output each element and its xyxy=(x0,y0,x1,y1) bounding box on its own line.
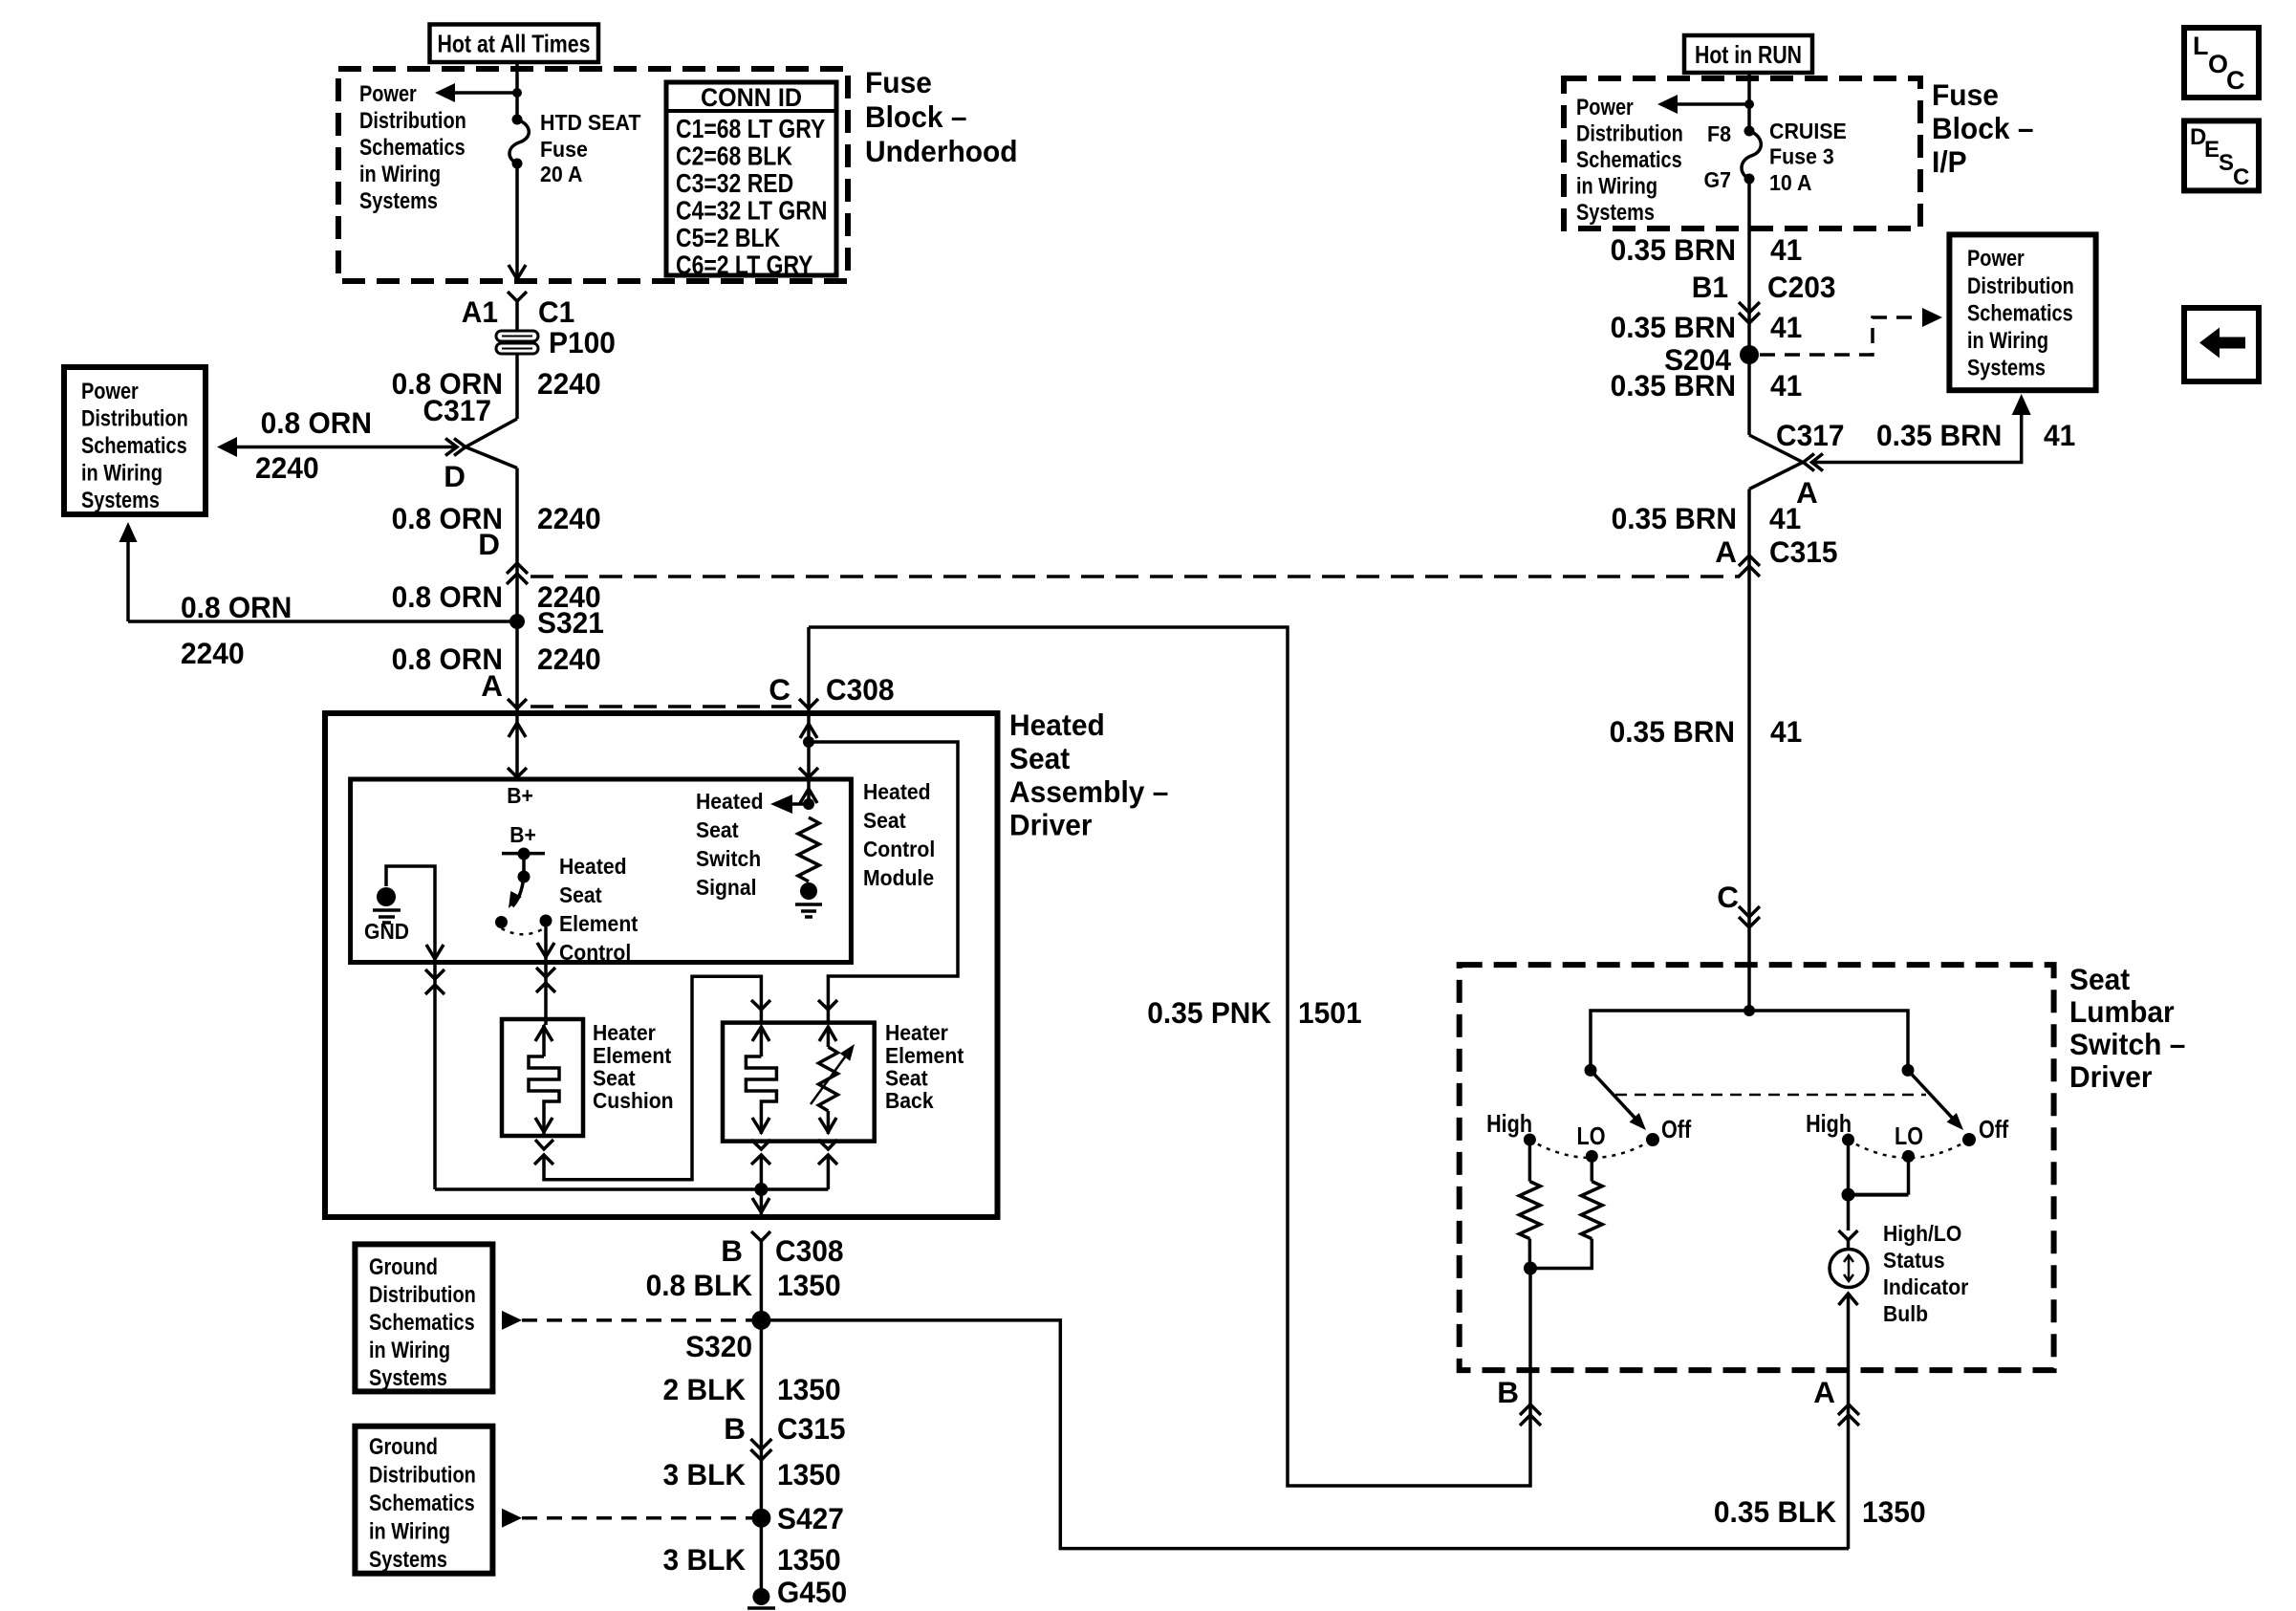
svg-text:Element: Element xyxy=(559,911,639,936)
svg-text:Control: Control xyxy=(559,940,631,965)
svg-text:D: D xyxy=(478,527,500,561)
svg-text:Hot in RUN: Hot in RUN xyxy=(1695,40,1802,69)
svg-text:0.35 BRN: 0.35 BRN xyxy=(1610,714,1735,749)
svg-text:Ground: Ground xyxy=(369,1254,438,1280)
svg-text:Systems: Systems xyxy=(369,1547,447,1573)
svg-text:Heated: Heated xyxy=(559,854,627,879)
svg-text:C1: C1 xyxy=(538,294,574,329)
svg-text:2 BLK: 2 BLK xyxy=(663,1372,747,1406)
svg-text:Module: Module xyxy=(863,865,934,890)
svg-text:B: B xyxy=(1497,1375,1519,1409)
svg-text:G450: G450 xyxy=(777,1575,847,1609)
svg-text:C1=68 LT GRY: C1=68 LT GRY xyxy=(676,114,826,143)
svg-text:Lumbar: Lumbar xyxy=(2069,994,2175,1029)
svg-text:in Wiring: in Wiring xyxy=(369,1519,450,1545)
svg-text:LO: LO xyxy=(1577,1121,1606,1150)
svg-text:B: B xyxy=(721,1233,743,1268)
svg-text:1350: 1350 xyxy=(777,1372,841,1406)
svg-text:3 BLK: 3 BLK xyxy=(663,1542,747,1577)
svg-text:Element: Element xyxy=(885,1043,964,1068)
svg-text:41: 41 xyxy=(1770,368,1802,403)
svg-text:GND: GND xyxy=(364,919,409,944)
svg-text:I/P: I/P xyxy=(1932,144,1967,179)
svg-text:C4=32 LT GRN: C4=32 LT GRN xyxy=(676,196,827,226)
svg-text:Schematics: Schematics xyxy=(1576,147,1682,173)
svg-text:Seat: Seat xyxy=(1009,741,1071,775)
svg-text:Seat: Seat xyxy=(2069,962,2131,996)
svg-text:20 A: 20 A xyxy=(540,162,582,186)
svg-text:Distribution: Distribution xyxy=(1967,273,2074,299)
svg-text:C: C xyxy=(2226,66,2245,95)
svg-text:Heated: Heated xyxy=(863,779,931,804)
svg-text:in Wiring: in Wiring xyxy=(369,1338,450,1363)
svg-text:C6=2 LT GRY: C6=2 LT GRY xyxy=(676,250,813,280)
svg-text:P100: P100 xyxy=(549,325,616,359)
svg-text:A1: A1 xyxy=(462,294,498,329)
svg-text:Seat: Seat xyxy=(593,1066,636,1091)
svg-text:0.8 ORN: 0.8 ORN xyxy=(392,579,503,614)
svg-text:1501: 1501 xyxy=(1298,995,1362,1030)
svg-text:S321: S321 xyxy=(537,605,604,640)
svg-text:C5=2 BLK: C5=2 BLK xyxy=(676,223,780,252)
svg-text:Seat: Seat xyxy=(863,808,906,833)
svg-text:Systems: Systems xyxy=(359,188,438,214)
svg-text:Element: Element xyxy=(593,1043,672,1068)
svg-text:C308: C308 xyxy=(826,672,895,707)
svg-text:0.8 ORN: 0.8 ORN xyxy=(181,590,292,624)
svg-text:D: D xyxy=(444,459,466,493)
svg-text:C317: C317 xyxy=(1776,418,1845,452)
svg-text:High/LO: High/LO xyxy=(1883,1221,1961,1246)
svg-text:Seat: Seat xyxy=(885,1066,928,1091)
svg-text:0.35 BRN: 0.35 BRN xyxy=(1876,418,2002,452)
svg-text:B+: B+ xyxy=(509,822,536,847)
svg-text:41: 41 xyxy=(1770,714,1802,749)
svg-text:Distribution: Distribution xyxy=(81,406,188,432)
svg-text:1350: 1350 xyxy=(1862,1494,1926,1529)
svg-text:Heater: Heater xyxy=(593,1020,656,1045)
svg-text:Status: Status xyxy=(1883,1248,1945,1273)
svg-text:0.35 BRN: 0.35 BRN xyxy=(1612,501,1737,535)
svg-text:Switch –: Switch – xyxy=(2069,1027,2185,1061)
svg-text:Heated: Heated xyxy=(1009,708,1105,742)
svg-text:Power: Power xyxy=(81,379,139,404)
svg-text:10 A: 10 A xyxy=(1769,170,1811,195)
svg-text:Signal: Signal xyxy=(696,875,757,900)
svg-text:1350: 1350 xyxy=(777,1268,841,1302)
svg-text:Power: Power xyxy=(359,81,417,107)
svg-text:C308: C308 xyxy=(775,1233,844,1268)
svg-text:0.8 ORN: 0.8 ORN xyxy=(261,405,372,440)
svg-text:S320: S320 xyxy=(685,1329,752,1363)
svg-text:Systems: Systems xyxy=(1576,200,1655,226)
svg-text:2240: 2240 xyxy=(255,450,319,485)
svg-text:Assembly –: Assembly – xyxy=(1009,774,1168,809)
svg-text:Fuse: Fuse xyxy=(1932,77,1999,112)
svg-text:F8: F8 xyxy=(1707,121,1731,146)
svg-text:Back: Back xyxy=(885,1088,934,1113)
svg-text:S427: S427 xyxy=(777,1501,844,1535)
svg-text:0.35 BRN: 0.35 BRN xyxy=(1611,232,1736,267)
svg-text:Fuse: Fuse xyxy=(540,137,588,162)
svg-text:A: A xyxy=(1715,534,1737,569)
svg-text:A: A xyxy=(1813,1375,1835,1409)
svg-text:41: 41 xyxy=(1770,310,1802,344)
svg-text:2240: 2240 xyxy=(537,642,601,676)
svg-text:B1: B1 xyxy=(1692,270,1728,304)
svg-text:Driver: Driver xyxy=(2069,1059,2153,1094)
svg-text:Power: Power xyxy=(1576,95,1634,120)
svg-text:High: High xyxy=(1486,1109,1532,1138)
svg-text:0.35 BRN: 0.35 BRN xyxy=(1611,368,1736,403)
svg-text:in Wiring: in Wiring xyxy=(1967,328,2048,354)
svg-text:3 BLK: 3 BLK xyxy=(663,1457,747,1491)
svg-text:CRUISE: CRUISE xyxy=(1769,119,1847,143)
svg-text:C: C xyxy=(2233,164,2249,190)
svg-text:in Wiring: in Wiring xyxy=(81,461,162,487)
svg-text:0.35 BLK: 0.35 BLK xyxy=(1714,1494,1836,1529)
svg-text:Schematics: Schematics xyxy=(369,1310,475,1336)
svg-text:C315: C315 xyxy=(777,1411,846,1446)
svg-text:in Wiring: in Wiring xyxy=(359,162,441,187)
svg-text:Systems: Systems xyxy=(81,488,160,513)
svg-text:O: O xyxy=(2208,50,2228,78)
svg-text:High: High xyxy=(1806,1109,1852,1138)
svg-text:E: E xyxy=(2204,137,2220,163)
svg-text:Fuse 3: Fuse 3 xyxy=(1769,144,1834,169)
svg-text:Schematics: Schematics xyxy=(1967,301,2073,327)
svg-text:in Wiring: in Wiring xyxy=(1576,174,1657,200)
svg-text:41: 41 xyxy=(1770,232,1802,267)
svg-text:Switch: Switch xyxy=(696,846,761,871)
svg-text:C315: C315 xyxy=(1769,534,1838,569)
svg-text:Underhood: Underhood xyxy=(865,134,1018,168)
svg-text:Schematics: Schematics xyxy=(359,135,466,161)
svg-text:Fuse: Fuse xyxy=(865,65,932,99)
svg-text:G7: G7 xyxy=(1704,167,1732,192)
svg-text:CONN ID: CONN ID xyxy=(701,83,802,112)
svg-text:C2=68 BLK: C2=68 BLK xyxy=(676,142,792,171)
svg-text:HTD SEAT: HTD SEAT xyxy=(540,110,640,135)
svg-text:Schematics: Schematics xyxy=(369,1491,475,1516)
svg-text:LO: LO xyxy=(1895,1121,1923,1150)
svg-text:A: A xyxy=(481,668,503,703)
svg-text:1350: 1350 xyxy=(777,1542,841,1577)
svg-text:Control: Control xyxy=(863,837,935,861)
svg-text:41: 41 xyxy=(1769,501,1801,535)
svg-text:Distribution: Distribution xyxy=(369,1282,476,1308)
svg-text:Seat: Seat xyxy=(559,882,602,907)
svg-text:C: C xyxy=(769,672,791,707)
svg-text:L: L xyxy=(2193,32,2209,60)
svg-text:41: 41 xyxy=(2044,418,2075,452)
svg-text:Driver: Driver xyxy=(1009,808,1093,842)
svg-text:Block –: Block – xyxy=(865,99,967,134)
svg-text:0.35 PNK: 0.35 PNK xyxy=(1147,995,1271,1030)
svg-text:Indicator: Indicator xyxy=(1883,1274,1968,1299)
svg-text:Systems: Systems xyxy=(369,1365,447,1391)
svg-text:2240: 2240 xyxy=(537,501,601,535)
svg-text:Heater: Heater xyxy=(885,1020,948,1045)
svg-text:B+: B+ xyxy=(507,783,533,808)
svg-text:2240: 2240 xyxy=(181,636,245,670)
svg-text:Distribution: Distribution xyxy=(369,1463,476,1489)
svg-text:S: S xyxy=(2219,150,2234,176)
svg-text:Off: Off xyxy=(1661,1115,1691,1143)
svg-text:Distribution: Distribution xyxy=(359,108,466,134)
svg-text:Off: Off xyxy=(1979,1115,2008,1143)
svg-text:B: B xyxy=(724,1411,746,1446)
svg-text:C317: C317 xyxy=(423,393,492,427)
svg-text:0.8 BLK: 0.8 BLK xyxy=(646,1268,753,1302)
svg-text:C203: C203 xyxy=(1767,270,1836,304)
svg-text:Block –: Block – xyxy=(1932,111,2034,145)
svg-text:Distribution: Distribution xyxy=(1576,121,1683,147)
svg-text:Schematics: Schematics xyxy=(81,433,187,459)
svg-text:2240: 2240 xyxy=(537,366,601,401)
svg-text:Seat: Seat xyxy=(696,817,739,842)
svg-text:0.35 BRN: 0.35 BRN xyxy=(1611,310,1736,344)
svg-text:C: C xyxy=(1717,880,1739,914)
svg-text:1350: 1350 xyxy=(777,1457,841,1491)
svg-text:Systems: Systems xyxy=(1967,356,2046,381)
svg-text:Heated: Heated xyxy=(696,789,764,814)
svg-text:Cushion: Cushion xyxy=(593,1088,674,1113)
svg-text:Bulb: Bulb xyxy=(1883,1301,1928,1326)
svg-text:Ground: Ground xyxy=(369,1434,438,1460)
svg-text:C3=32 RED: C3=32 RED xyxy=(676,168,793,198)
svg-text:Hot at All Times: Hot at All Times xyxy=(438,30,591,58)
svg-text:Power: Power xyxy=(1967,246,2025,272)
